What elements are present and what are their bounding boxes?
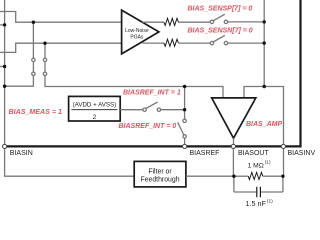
wire: filter box to BIASOUT junction [186,175,234,177]
svg-text:(1): (1) [267,198,273,204]
bus: thick BIAS bus with right-side riser to top edge [5,0,301,146]
wire: BIASIN pin down to filter box [5,148,134,176]
node: sensn joins sense bus [263,41,266,44]
wire: feedback run to BIASINV and BIAS_AMP right input [244,87,284,145]
switch BIASREF_INT=1 (open) [143,108,146,111]
wire: left vertical bus A from top edge to BIASIN pin [4,0,6,145]
wire: BIAS_AMP output stub to BIASOUT pin [233,138,235,144]
node: A-measure return [3,85,6,88]
wire: switch to node at x=184.6 [161,109,185,111]
node: sense bus joins feedback run [263,85,266,88]
node: A-input1 [3,23,6,26]
switch BIAS_SENSP[7] (open) [210,20,213,23]
node: input2-switch2 [43,42,46,45]
svg-text:BIASIN: BIASIN [10,150,33,157]
node: sensp joins sense bus [263,20,266,23]
svg-text:BIASREF: BIASREF [190,150,220,157]
svg-text:BIAS_AMP: BIAS_AMP [246,121,283,128]
wire: R2 to switch BIAS_SENSN [179,42,211,44]
wire: input 1 stepped from left edge to PGA positive input [0,12,122,23]
svg-text:BIAS_SENSN[7] = 0: BIAS_SENSN[7] = 0 [188,27,253,34]
wire: sense bus vertical from top edge down to feedback node [263,0,265,87]
op-amp U3 BIAS_AMP triangle [212,98,256,138]
svg-text:1 MΩ: 1 MΩ [248,162,264,169]
wire: BIASOUT pin down to resistor junction [232,148,234,176]
wire: PGA output 1 lead [142,21,164,23]
wire: switch column 1 bottom to line A junction [5,76,34,87]
node: A-input2 [3,65,6,68]
node: long run to BIASREF_INT branch [183,85,186,88]
wire: input stub joining line A at y=66.5 [0,66,5,68]
svg-text:(AVDD + AVSS): (AVDD + AVSS) [73,101,117,108]
op-amp U1 Low-Noise PGA triangle [122,10,159,54]
svg-text:BIASREF_INT = 0: BIASREF_INT = 0 [119,123,177,130]
svg-text:2: 2 [93,114,97,121]
svg-text:Feedthrough: Feedthrough [140,176,179,183]
svg-text:BIAS_MEAS = 1: BIAS_MEAS = 1 [9,108,62,116]
wire: vertical from long run down to BIASREF_INT=0 switch [184,87,186,120]
wire: R1 to switch BIAS_SENSP [179,21,211,23]
node: BIASREF_INT switches join [183,108,186,111]
svg-text:BIASREF_INT = 1: BIASREF_INT = 1 [123,89,181,96]
box Filter or Feedthrough [134,161,186,187]
svg-text:(1): (1) [265,160,271,166]
pin BIASIN [3,144,7,148]
pin BIASOUT [231,144,235,148]
box U2 (AVDD+AVSS)/2 reference [69,96,121,121]
svg-text:BIASOUT: BIASOUT [238,150,269,157]
wire: input stub joining line A at y=24.9 [0,24,5,26]
resistor R3 1 MΩ [236,175,249,177]
pin BIASREF [183,144,187,148]
wire: PGA output 2 lead [142,42,164,44]
svg-text:BIASINV: BIASINV [288,150,316,157]
svg-text:Low-Noise: Low-Noise [125,28,149,34]
wire: switch bottom to BIASREF pin [184,138,186,144]
switch BIASREF_INT=0 (open, vertical) [183,119,186,122]
capacitor C1 1.5 nF [234,191,256,193]
svg-text:Filter or: Filter or [148,168,172,175]
wire: input 2 stepped from left edge to PGA negative input [0,43,122,52]
wire: BIASINV pin down to resistor junction [283,148,285,176]
wire: BIAS_SENSP to node 264 [228,21,265,23]
switch S1 (BIAS_MEAS, closed) contacts [32,58,35,61]
wire: BIAS_SENSN to node 264 [228,42,265,44]
wire: switch column 1 drop from input1 [32,22,34,58]
wire: box output to BIASREF_INT=1 switch [120,109,143,111]
node: BIASOUT-R3 left [232,175,235,178]
switch BIAS_SENSN[7] (open) [210,41,213,44]
pin BIASINV [281,144,285,148]
resistor R2 (bottom output) [164,39,179,46]
wire: right riser to capacitor row [282,176,284,192]
node: BIASINV-R3 right [281,175,284,178]
resistor R1 (top output) [164,18,179,25]
svg-text:1.5 nF: 1.5 nF [246,199,267,208]
wire: left riser to capacitor row [233,176,235,192]
switch S2 (BIAS_MEAS, closed) contacts [43,58,46,61]
wire: switch column 2 bottom, long run to BIAS_AMP left input [45,76,223,98]
svg-text:BIAS_SENSP[7] = 0: BIAS_SENSP[7] = 0 [188,6,253,13]
wire: switch column 2 drop from input2 [44,43,46,58]
node: input1-switch1 [32,21,35,24]
svg-text:PGAs: PGAs [130,34,144,40]
